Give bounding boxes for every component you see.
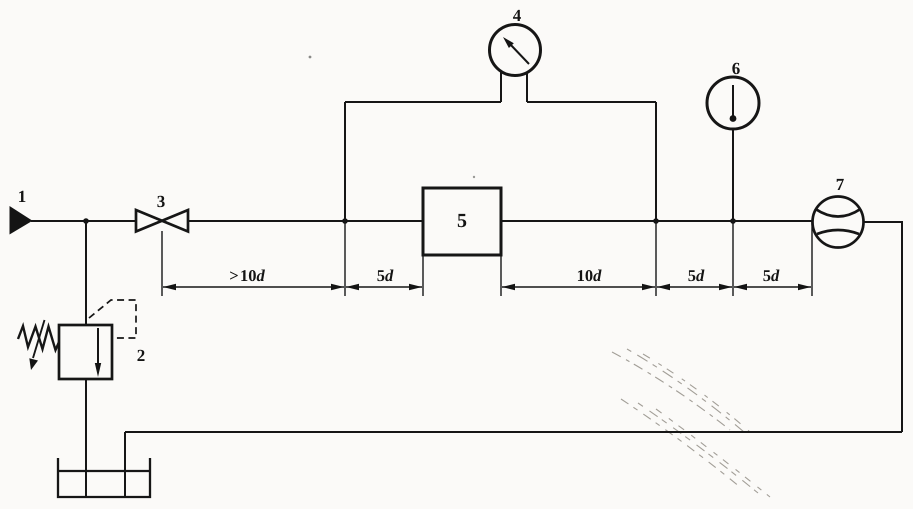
- dimension 5d (right): [734, 266, 811, 290]
- test section 5: [423, 188, 501, 255]
- relief valve 2: [18, 300, 136, 379]
- thermometer 6: [707, 77, 759, 129]
- dimension extension: valve 3 centre: [161, 231, 163, 296]
- dimension extension: right junction: [655, 221, 657, 296]
- wire: right vertical return: [901, 221, 903, 432]
- dimension extension: thermometer line: [732, 221, 734, 296]
- svg-text:5d: 5d: [763, 266, 780, 285]
- svg-text:1: 1: [18, 187, 27, 206]
- dimension 5d (middle): [657, 266, 732, 290]
- wire: test section 5 to flow meter 7: [501, 220, 812, 222]
- wire: relief valve 2 to tank: [85, 379, 87, 497]
- dimension extension: test section left edge: [422, 255, 424, 296]
- wire: gauge 4 left leg: [500, 72, 502, 102]
- wire: flow meter 7 to right corner: [863, 221, 902, 223]
- wire: branch top left horizontal: [345, 101, 501, 103]
- wire: left riser of gauge branch: [344, 102, 346, 221]
- svg-text:5d: 5d: [688, 266, 705, 285]
- dimension 10d: [502, 266, 655, 290]
- svg-text:7: 7: [836, 175, 845, 194]
- dimension extension: flow meter left edge: [811, 222, 813, 296]
- svg-text:4: 4: [513, 6, 522, 25]
- node: thermometer junction: [730, 218, 736, 224]
- source arrow 1: [10, 206, 33, 235]
- wire: gauge 4 right leg: [526, 72, 528, 102]
- node: left branch junction: [342, 218, 348, 224]
- flow meter 7: [813, 197, 864, 248]
- valve 3: [136, 210, 188, 232]
- svg-text:10d: 10d: [577, 266, 603, 285]
- node: right branch junction: [653, 218, 659, 224]
- svg-text:5: 5: [457, 210, 467, 232]
- tank: [58, 458, 150, 497]
- svg-text:2: 2: [137, 346, 146, 365]
- wire: valve 3 to test section 5: [188, 220, 423, 222]
- dimension extension: test section right edge: [500, 255, 502, 296]
- dimension >10d: [163, 266, 344, 290]
- wire: bottom return line: [125, 431, 902, 433]
- svg-text:> 10d: > 10d: [229, 266, 265, 285]
- wire: return drop into tank: [124, 432, 126, 497]
- node: branch to relief valve: [83, 218, 89, 224]
- pressure gauge 4: [490, 25, 541, 76]
- dimension extension: left junction: [344, 221, 346, 296]
- wire: thermometer 6 stem to main line: [732, 129, 734, 221]
- wire: source to valve 3: [31, 220, 136, 222]
- svg-text:6: 6: [732, 59, 741, 78]
- wire: down to relief valve 2: [85, 221, 87, 325]
- dimension 5d (left): [346, 266, 422, 290]
- svg-text:3: 3: [157, 192, 166, 211]
- wire: branch top right horizontal: [527, 101, 656, 103]
- wire: right riser of gauge branch: [655, 102, 657, 221]
- svg-text:5d: 5d: [377, 266, 394, 285]
